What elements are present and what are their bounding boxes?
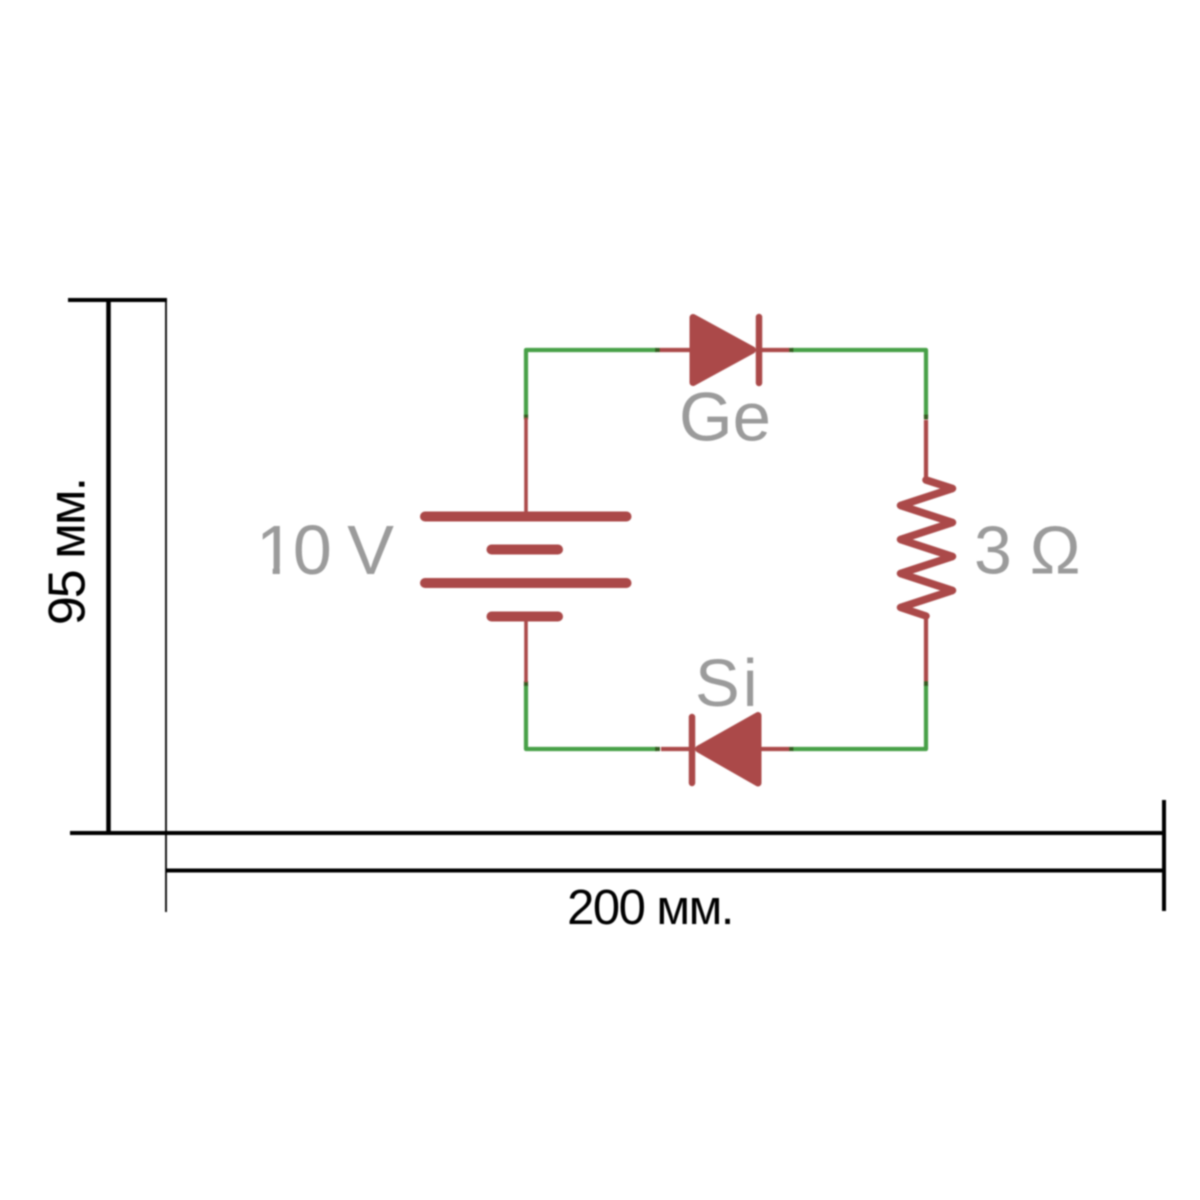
diode Ge triangle: [693, 318, 753, 383]
resistor lead bottom: [924, 616, 928, 681]
dimension line 95mm vertical: [106, 298, 111, 834]
wire bottom-left: [526, 685, 657, 749]
wire bottom-right: [793, 685, 926, 749]
resistor zigzag R 3ohm: [901, 480, 953, 616]
svg-text:Si: Si: [695, 646, 761, 721]
node resistor top: [924, 415, 928, 420]
node resistor bottom: [924, 681, 928, 686]
battery lead bottom: [524, 620, 528, 682]
diode Si cathode lead: [661, 747, 689, 751]
diode Ge anode lead: [660, 348, 691, 352]
battery lead top: [524, 418, 528, 513]
node battery bottom: [524, 681, 528, 686]
dimension tick right: [1162, 800, 1166, 911]
mask to remove serif foot of digit 1: [257, 567, 273, 578]
wire top-left: [526, 350, 656, 417]
node diode Ge cathode: [789, 348, 794, 352]
dimension baseline bottom: [70, 831, 1164, 835]
dimension tick top: [68, 298, 167, 302]
node diode Si cathode: [655, 747, 660, 751]
battery plate long 1: [425, 512, 627, 522]
svg-text:95 мм.: 95 мм.: [39, 479, 97, 625]
svg-text:200 мм.: 200 мм.: [567, 881, 733, 935]
svg-text:Ge: Ge: [679, 379, 771, 456]
diode Si anode lead: [762, 747, 790, 751]
battery plate short 2: [492, 612, 559, 622]
extension line left: [165, 300, 167, 912]
node diode Ge anode: [655, 348, 660, 352]
diode Ge cathode bar: [756, 317, 763, 383]
battery plate short 1: [492, 545, 559, 555]
diode Ge cathode lead: [762, 348, 789, 352]
battery plate long 2: [425, 578, 627, 588]
diode Si triangle: [699, 716, 759, 784]
diode Si cathode bar: [689, 717, 696, 783]
svg-text:3 Ω: 3 Ω: [974, 513, 1080, 589]
svg-text:10 V: 10 V: [256, 511, 394, 589]
node diode Si anode: [789, 747, 794, 751]
dimension line 200mm horizontal: [166, 869, 1164, 873]
node battery top: [524, 415, 528, 420]
resistor lead top: [924, 420, 928, 481]
wire top-right: [792, 350, 926, 417]
